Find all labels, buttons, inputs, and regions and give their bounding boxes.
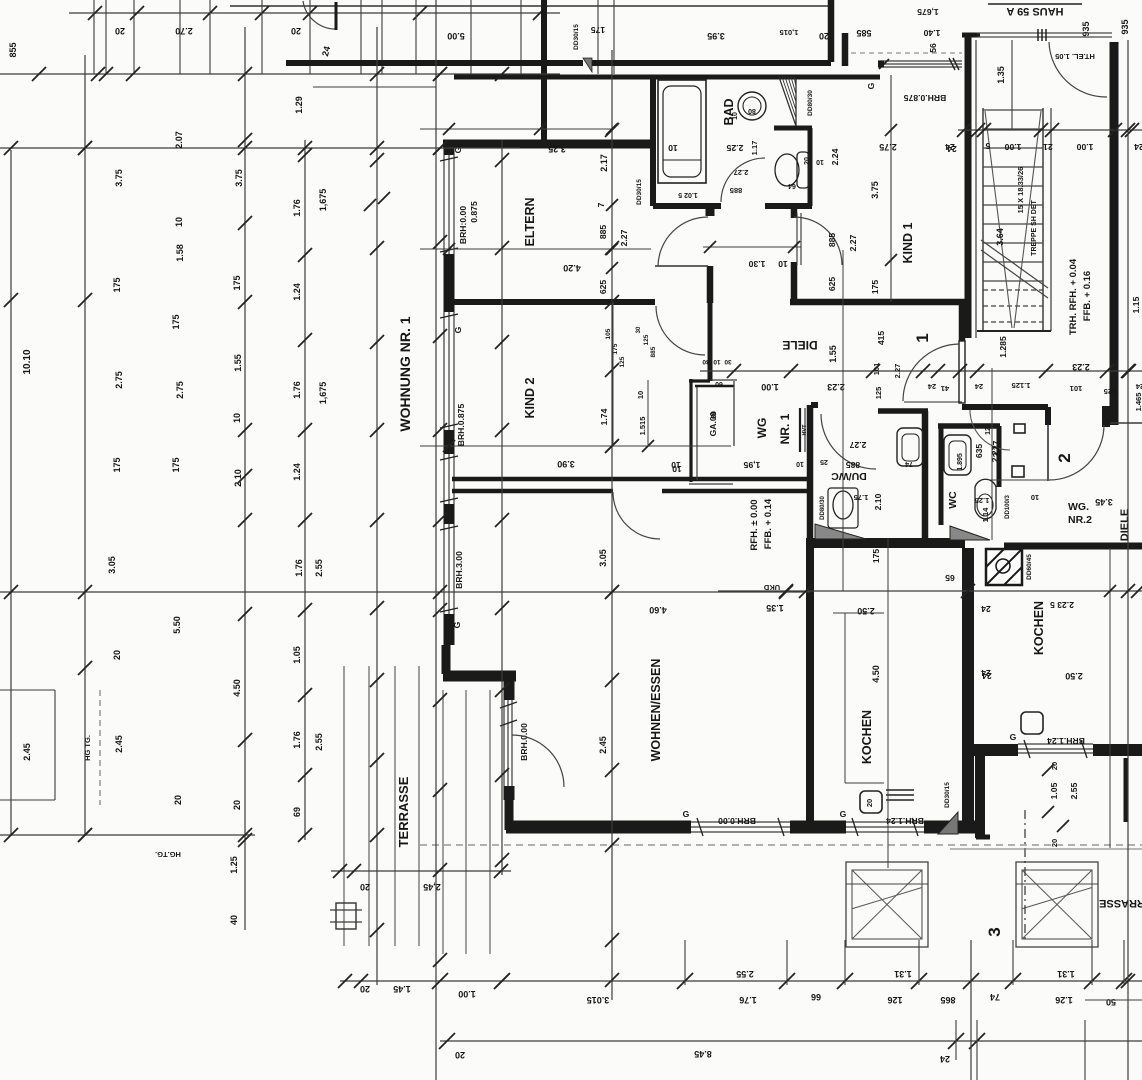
ELTERN door arc — [658, 217, 708, 266]
KIND1 left wall upper — [791, 206, 798, 218]
vertical line x919 bottom — [918, 940, 920, 985]
svg-text:BRH.0.00: BRH.0.00 — [718, 816, 756, 826]
svg-text:3.95: 3.95 — [707, 31, 725, 41]
svg-text:20: 20 — [804, 157, 811, 165]
svg-text:G: G — [453, 326, 463, 333]
svg-text:5.00: 5.00 — [447, 31, 465, 41]
WC right wall — [997, 426, 1002, 487]
svg-text:125: 125 — [1104, 387, 1117, 396]
svg-text:1.05: 1.05 — [1049, 782, 1059, 799]
GA.09 closet right side line — [733, 381, 735, 446]
vertical line x956 lower — [955, 1020, 957, 1060]
svg-text:24: 24 — [982, 671, 992, 681]
svg-text:2.17: 2.17 — [599, 154, 609, 172]
apt1 entry threshold line — [904, 401, 962, 403]
svg-text:BAD: BAD — [722, 98, 736, 125]
svg-text:625: 625 — [827, 277, 837, 292]
svg-text:DD80/30: DD80/30 — [807, 90, 814, 116]
svg-text:G: G — [683, 809, 690, 819]
svg-text:66: 66 — [811, 992, 821, 1002]
svg-text:5: 5 — [985, 141, 990, 151]
window KIND1 north (BRH.0.875) — [878, 60, 962, 62]
svg-text:RFH. ± 0.00: RFH. ± 0.00 — [749, 499, 760, 550]
vertical line x1092 bottom — [1091, 940, 1093, 985]
dashed HG TG line — [99, 690, 101, 805]
svg-text:HT.EL. 1.05: HT.EL. 1.05 — [1055, 52, 1095, 61]
wall y405 left segment — [811, 402, 818, 408]
dim line y446 (3.90) — [420, 445, 731, 447]
wall top piece y33 right — [962, 33, 980, 38]
svg-text:3.25: 3.25 — [548, 144, 566, 154]
KIND2 bottom wall (double) lower — [452, 489, 613, 494]
svg-text:30: 30 — [636, 326, 642, 333]
svg-text:WOHNUNG NR. 1: WOHNUNG NR. 1 — [397, 316, 413, 431]
toilet niche right wall (BAD) — [808, 128, 813, 206]
svg-text:1.17: 1.17 — [750, 141, 759, 156]
tick pair y1041 x450 — [439, 1033, 455, 1049]
jog wall down x446 — [442, 645, 451, 674]
niche line dashed y53 — [851, 52, 962, 54]
svg-text:1.24: 1.24 — [292, 463, 302, 481]
terrace2 wall corner — [976, 835, 990, 840]
hall dim line y247 — [703, 246, 801, 248]
svg-text:1.30: 1.30 — [748, 259, 765, 269]
terrace column symbol — [336, 903, 356, 929]
svg-text:885: 885 — [650, 346, 657, 357]
dim vert x888 kitchen — [887, 538, 889, 868]
svg-text:KOCHEN: KOCHEN — [860, 710, 874, 764]
svg-text:1.76: 1.76 — [292, 731, 302, 749]
light well box 2 — [1016, 862, 1098, 947]
kitchen divider wall x810 — [806, 545, 814, 824]
vertical dim line x436 — [435, 0, 437, 1080]
svg-text:FFB. + 0.14: FFB. + 0.14 — [763, 498, 774, 549]
svg-text:1.75: 1.75 — [854, 493, 869, 502]
bottom right corner lines — [1085, 999, 1142, 1001]
svg-text:1.45: 1.45 — [393, 984, 411, 994]
vertical line x787 bottom — [786, 940, 788, 985]
ELTERN door leaf — [655, 265, 708, 267]
svg-text:175: 175 — [232, 275, 242, 290]
BAD left wall — [650, 77, 656, 206]
svg-text:175: 175 — [112, 277, 122, 292]
svg-text:2.10: 2.10 — [873, 493, 883, 510]
svg-text:DD60/45: DD60/45 — [1026, 554, 1033, 580]
svg-text:2.24: 2.24 — [830, 148, 840, 165]
svg-text:2.75: 2.75 — [114, 371, 124, 389]
wall y540 right (WG2/kitchen2) — [1004, 543, 1142, 550]
svg-text:60: 60 — [711, 411, 718, 419]
right wall apartment 1 — [962, 548, 974, 831]
upper building wall fragment — [230, 5, 830, 7]
left wall block y616-643 — [444, 614, 455, 645]
vertical dim line x245 — [244, 27, 246, 930]
vertical dim line x377 — [376, 27, 378, 985]
svg-text:HG.TG.: HG.TG. — [155, 850, 181, 859]
stair right rail outer — [1050, 108, 1052, 331]
dim ticks x612 ELTERN — [606, 199, 618, 211]
GA.09 closet top wall — [689, 379, 710, 382]
svg-text:1,015: 1,015 — [780, 28, 799, 37]
svg-text:2,45: 2,45 — [423, 882, 441, 892]
svg-text:10.10: 10.10 — [22, 349, 33, 374]
svg-text:10: 10 — [713, 358, 721, 365]
duct hatch wedge BAD — [779, 77, 796, 126]
svg-text:2.55: 2.55 — [314, 733, 324, 751]
vertical line x685 bottom — [684, 940, 686, 985]
BAD bottom wall left part — [653, 203, 721, 209]
svg-text:1.55: 1.55 — [828, 345, 838, 363]
svg-text:21: 21 — [1043, 142, 1053, 152]
DU/WC right wall — [922, 411, 929, 540]
svg-text:NR.2: NR.2 — [1068, 514, 1092, 526]
door jamb block apt2 entry — [1102, 406, 1110, 427]
svg-text:1.00: 1.00 — [458, 989, 476, 999]
right lower wall x1126 — [1124, 758, 1129, 822]
WOHNEN door arc — [613, 492, 660, 539]
svg-text:20: 20 — [455, 1050, 465, 1060]
loggia outline line y87 — [313, 86, 436, 88]
svg-text:1.74: 1.74 — [599, 408, 609, 425]
svg-text:10: 10 — [671, 460, 681, 470]
horizontal dim line y74 — [0, 73, 560, 75]
wall block right of KIND1 window — [878, 61, 884, 68]
svg-text:BRH.1.24: BRH.1.24 — [886, 816, 924, 826]
kitchen1 cooktop lines — [886, 789, 914, 791]
svg-text:BRH.3.00: BRH.3.00 — [454, 551, 464, 589]
svg-text:125: 125 — [643, 334, 650, 345]
dim vert line x891 KIND1 — [890, 75, 892, 302]
svg-text:20: 20 — [112, 650, 122, 660]
ELTERN door hinge block x710 — [706, 203, 715, 216]
svg-text:KOCHEN: KOCHEN — [1032, 601, 1046, 655]
svg-text:2.07: 2.07 — [174, 131, 184, 149]
svg-text:625: 625 — [598, 280, 608, 295]
vertical dim line x612 — [611, 50, 613, 1000]
svg-text:1: 1 — [913, 333, 932, 342]
svg-text:1.76: 1.76 — [739, 995, 757, 1005]
kitchen2 bottom wall right — [1093, 744, 1142, 756]
svg-text:24: 24 — [974, 382, 983, 391]
svg-text:1.00: 1.00 — [1076, 142, 1093, 152]
svg-text:10: 10 — [1031, 493, 1039, 502]
svg-text:G: G — [453, 146, 463, 153]
svg-text:1.00: 1.00 — [1004, 142, 1021, 152]
horizontal dim line y592 — [0, 591, 810, 593]
DU/WC top wall — [878, 408, 928, 414]
svg-text:40: 40 — [229, 915, 239, 925]
kitchen2 sink — [1021, 712, 1043, 734]
svg-text:935: 935 — [1120, 19, 1130, 34]
svg-text:1.31: 1.31 — [1057, 969, 1075, 979]
svg-text:2.50: 2.50 — [857, 606, 875, 616]
svg-text:KIND 2: KIND 2 — [523, 377, 537, 418]
svg-text:60: 60 — [715, 380, 723, 387]
svg-text:20: 20 — [173, 795, 183, 805]
svg-text:2.27: 2.27 — [848, 234, 858, 251]
svg-text:1.285: 1.285 — [998, 336, 1008, 358]
dash-dot terrace2 border — [1024, 810, 1026, 940]
svg-text:24: 24 — [927, 382, 936, 391]
kitchen2 window (BRH.1.24) — [1018, 743, 1093, 745]
svg-text:10: 10 — [732, 112, 739, 120]
KIND2-GA dim vert x648 — [647, 380, 649, 446]
svg-text:175: 175 — [171, 314, 181, 329]
svg-text:TREPPE SH DET: TREPPE SH DET — [1031, 199, 1038, 255]
outer wall top (building separation) — [286, 60, 583, 66]
wall line right of jamb — [1110, 422, 1142, 424]
svg-text:175: 175 — [171, 457, 181, 472]
svg-text:20: 20 — [360, 882, 370, 892]
kitchen1 sink — [860, 791, 882, 813]
svg-text:RRASSE: RRASSE — [1099, 897, 1142, 909]
stair inner face line — [975, 40, 977, 338]
svg-text:2.27: 2.27 — [619, 229, 629, 246]
stair right rail — [1042, 108, 1044, 331]
svg-text:885: 885 — [827, 233, 837, 248]
svg-text:30: 30 — [702, 358, 710, 365]
stair bottom edge — [977, 330, 1051, 332]
svg-text:1.58: 1.58 — [175, 244, 185, 262]
svg-text:885: 885 — [598, 225, 608, 240]
svg-text:BRH:0.00: BRH:0.00 — [458, 206, 468, 244]
svg-text:20: 20 — [291, 26, 301, 36]
ground dashed line below apartment — [420, 844, 1142, 846]
svg-text:DD30/15: DD30/15 — [944, 782, 951, 808]
WG2 door arc — [970, 410, 1010, 450]
GA.09 closet bottom open edge — [689, 483, 733, 485]
shaft box 1 (apt2 hall) — [1014, 424, 1025, 433]
stair hall top wall / window — [977, 32, 1112, 34]
wall stub up at x830 — [828, 0, 835, 62]
svg-text:DIELE: DIELE — [1119, 509, 1131, 541]
DU/WC washbasin — [897, 428, 923, 466]
svg-text:4.50: 4.50 — [871, 665, 881, 683]
svg-text:TERRASSE: TERRASSE — [396, 776, 411, 847]
terrace hatching stripes — [343, 666, 345, 946]
dim line vertical x1012 — [1011, 40, 1013, 129]
svg-text:74: 74 — [905, 460, 913, 467]
svg-text:1,95: 1,95 — [743, 460, 760, 470]
kitchen2 left wall (shared) — [962, 548, 974, 747]
KIND2 dim vert x613 lower — [612, 302, 614, 446]
KIND1 door leaf — [796, 213, 798, 265]
svg-text:1.125: 1.125 — [1012, 381, 1031, 390]
svg-text:1.40: 1.40 — [923, 28, 940, 38]
svg-text:126: 126 — [887, 995, 902, 1005]
svg-text:56: 56 — [928, 43, 938, 53]
stair left rail — [982, 108, 984, 331]
svg-text:2.27: 2.27 — [734, 168, 749, 177]
svg-text:101: 101 — [1070, 384, 1083, 393]
svg-text:64: 64 — [788, 182, 796, 189]
tick marks terrace bottom — [338, 974, 352, 988]
svg-text:2.75: 2.75 — [175, 381, 185, 399]
BAD bottom wall right part — [765, 203, 812, 209]
dim line y249 (4.20) — [420, 248, 651, 250]
dim line y1041 — [440, 1040, 1142, 1042]
svg-text:1.15: 1.15 — [1131, 296, 1141, 313]
vertical line x977 lower — [976, 1020, 978, 1080]
left wall block y506-522 — [444, 504, 455, 524]
svg-text:125: 125 — [619, 356, 626, 367]
svg-text:G: G — [866, 82, 876, 89]
svg-text:4.50: 4.50 — [232, 679, 242, 697]
svg-text:20: 20 — [1050, 839, 1059, 847]
svg-text:2.45: 2.45 — [114, 735, 124, 753]
svg-text:3.05: 3.05 — [107, 556, 117, 574]
svg-text:1.76: 1.76 — [294, 559, 304, 577]
svg-text:1.76: 1.76 — [292, 199, 302, 217]
jog wall horizontal — [443, 671, 516, 682]
toilet niche top wall — [774, 126, 812, 131]
svg-text:10: 10 — [636, 391, 645, 399]
svg-text:10: 10 — [668, 143, 678, 153]
shaft box 2 (apt2 hall) — [1012, 466, 1024, 477]
light well box 1 — [846, 862, 928, 947]
svg-text:1.00: 1.00 — [761, 382, 779, 392]
svg-text:DD30/15: DD30/15 — [573, 24, 580, 50]
bathtub BAD — [658, 80, 706, 183]
svg-text:2.75: 2.75 — [879, 142, 897, 152]
svg-text:865: 865 — [940, 995, 955, 1005]
KIND2 door arc — [656, 306, 705, 355]
svg-text:20: 20 — [232, 800, 242, 810]
svg-text:1.25: 1.25 — [975, 496, 990, 505]
svg-text:BRH.1.24: BRH.1.24 — [1047, 736, 1085, 746]
svg-text:80: 80 — [748, 107, 756, 114]
stair cut lines — [981, 240, 1048, 288]
window W2 (BRH.0.875) — [443, 312, 445, 430]
dim line top — [69, 12, 560, 14]
svg-text:WC: WC — [947, 491, 959, 509]
svg-text:50: 50 — [1106, 997, 1116, 1007]
svg-text:175: 175 — [870, 280, 880, 295]
svg-text:25: 25 — [820, 458, 828, 465]
terrace2 side wall — [975, 748, 985, 838]
window W1 (BRH 0.00/0.875) — [443, 155, 445, 254]
svg-text:3.64: 3.64 — [995, 228, 1005, 246]
BAD door arc — [721, 158, 765, 202]
apt2 entry door arc — [1049, 425, 1104, 480]
HTL door arc — [1049, 42, 1107, 97]
svg-text:1.25: 1.25 — [229, 856, 239, 874]
svg-text:105: 105 — [605, 328, 612, 339]
svg-text:30: 30 — [724, 358, 732, 365]
svg-text:1,675: 1,675 — [318, 382, 328, 405]
svg-text:1.515: 1.515 — [638, 417, 647, 436]
svg-text:10: 10 — [796, 460, 804, 467]
stair left wall — [965, 33, 972, 338]
svg-text:5.50: 5.50 — [172, 616, 182, 634]
svg-text:1.14: 1.14 — [981, 507, 990, 522]
dim vert line x992 — [991, 368, 993, 540]
washbasin BAD (80) — [738, 92, 766, 120]
svg-text:10: 10 — [174, 217, 184, 227]
vertical dim line x85 — [84, 55, 86, 835]
svg-text:1.02 5: 1.02 5 — [678, 191, 698, 198]
horizontal dim line y148 — [0, 147, 520, 149]
svg-text:1.465: 1.465 — [1134, 393, 1142, 412]
vertical line x1124 bottom — [1123, 940, 1125, 985]
svg-text:UKD: UKD — [763, 583, 780, 592]
svg-text:2.50: 2.50 — [1065, 671, 1083, 681]
kitchen2 bottom wall left — [972, 744, 1018, 756]
svg-text:10: 10 — [816, 158, 824, 165]
dim line y371 (DIELE) — [700, 370, 1142, 372]
DU/WC door arc — [821, 414, 876, 469]
svg-text:ELTERN: ELTERN — [523, 197, 537, 246]
svg-text:1.35: 1.35 — [766, 603, 784, 613]
ground line 2 — [950, 848, 1142, 850]
svg-text:24: 24 — [945, 142, 955, 152]
vertical line x1013 bottom — [1012, 940, 1014, 985]
svg-text:1.35: 1.35 — [996, 66, 1006, 84]
tick marks top dim — [88, 6, 102, 20]
svg-text:G: G — [840, 809, 847, 819]
right edge dim line x1128 — [1127, 40, 1129, 1080]
GA.09 closet left wall — [689, 379, 692, 482]
svg-text:2.23: 2.23 — [827, 382, 845, 392]
svg-text:855: 855 — [8, 42, 18, 57]
svg-text:175: 175 — [112, 457, 122, 472]
svg-text:HAUS 59 A: HAUS 59 A — [1006, 5, 1063, 17]
terrace dim line — [331, 870, 511, 872]
svg-text:WG: WG — [755, 418, 769, 439]
terrace door arc — [512, 735, 564, 787]
outer wall right (stair hall) — [1110, 42, 1119, 425]
svg-text:885: 885 — [730, 186, 743, 195]
svg-text:BRH.0.875: BRH.0.875 — [904, 93, 947, 103]
apt1 entry door leaf — [959, 341, 965, 403]
svg-text:2.27: 2.27 — [893, 364, 902, 379]
svg-text:NR. 1: NR. 1 — [778, 413, 792, 444]
vertical grid lines top-left chain — [179, 0, 181, 74]
svg-text:65: 65 — [945, 573, 955, 583]
KIND1 left wall lower — [791, 262, 798, 302]
svg-text:BRH.0.00: BRH.0.00 — [519, 723, 529, 761]
bottom wall solid mid — [790, 821, 846, 834]
toilet BAD — [797, 152, 809, 188]
DU/WC toilet — [828, 488, 858, 528]
dim vert x1110 kitchen2 — [1109, 548, 1111, 848]
svg-text:BRH.0.875: BRH.0.875 — [456, 404, 466, 447]
svg-text:20: 20 — [865, 799, 874, 807]
svg-text:101: 101 — [872, 363, 881, 376]
dim line y981 — [340, 980, 1142, 982]
svg-text:2.10: 2.10 — [233, 469, 243, 487]
svg-text:3.75: 3.75 — [234, 169, 244, 187]
svg-text:20: 20 — [115, 26, 125, 36]
svg-text:2.23 5: 2.23 5 — [1050, 600, 1074, 610]
left wall bottom piece — [505, 800, 514, 830]
jog wall corner block — [504, 674, 515, 700]
svg-text:2.23: 2.23 — [1072, 362, 1090, 372]
svg-text:24: 24 — [981, 604, 991, 614]
dim line y591 (kitchen) — [718, 590, 1142, 592]
svg-text:585: 585 — [856, 28, 871, 38]
svg-text:1.29: 1.29 — [294, 96, 304, 114]
KIND1 door arc — [794, 217, 842, 265]
dim line y129 (ELTERN top) — [420, 128, 614, 130]
left outer wall top block — [444, 140, 455, 155]
dim vert line x843 (DIELE/hall) — [842, 250, 844, 591]
svg-text:G: G — [452, 621, 462, 628]
svg-text:2.55: 2.55 — [1069, 782, 1079, 799]
svg-text:DIELE: DIELE — [782, 338, 817, 352]
apt2 door leaf — [1047, 410, 1049, 481]
svg-text:1.31: 1.31 — [894, 969, 912, 979]
